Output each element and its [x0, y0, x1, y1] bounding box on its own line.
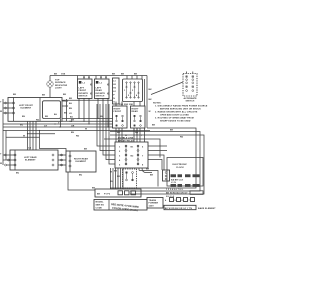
svg-text:BU: BU [69, 108, 73, 110]
svg-text:ELEMENT: ELEMENT [76, 161, 87, 163]
svg-text:BK W RD BU OR GY Y TN: BK W RD BU OR GY Y TN [165, 208, 193, 210]
bus labels [22, 116, 104, 137]
svg-text:FORMER: FORMER [149, 203, 159, 205]
clock side connector [163, 170, 170, 181]
svg-text:BAKE ELEMENT: BAKE ELEMENT [198, 207, 216, 210]
terminals between rear elements [58, 154, 66, 166]
leader line to alternate switch [151, 82, 183, 95]
svg-text:2. RANGE SHOWN WITH ALL CIRCU: 2. RANGE SHOWN WITH ALL CIRCUITS [155, 111, 198, 114]
double line break relay K1 [115, 138, 148, 168]
svg-text:REAR: REAR [132, 110, 139, 113]
svg-text:CLOCK: CLOCK [176, 167, 184, 169]
bus wire y133 [28, 133, 56, 135]
svg-text:ALTERNATE: ALTERNATE [184, 97, 198, 100]
svg-text:RD: RD [180, 137, 184, 139]
svg-text:1. DISCONNECT RANGE FROM POWE: 1. DISCONNECT RANGE FROM POWER SOURCE [155, 105, 208, 108]
svg-text:NOTES:: NOTES: [153, 103, 162, 105]
right rear element E3 [66, 149, 96, 177]
connector strip P1 [113, 78, 120, 104]
wire top bus L1 [50, 75, 147, 77]
drops from relay to bottom [111, 168, 124, 189]
svg-text:W: W [23, 136, 25, 138]
svg-text:CA: CA [28, 147, 32, 150]
bus wire y137 left [6, 136, 40, 138]
junction dots [27, 118, 138, 136]
svg-text:OR: OR [71, 125, 75, 127]
svg-text:OPEN AND DOOR CLOSED: OPEN AND DOOR CLOSED [160, 114, 189, 117]
wire to right rear element [40, 131, 67, 152]
svg-text:SWITCH: SWITCH [186, 101, 195, 103]
svg-text:BK: BK [63, 94, 67, 96]
svg-text:BK: BK [112, 74, 116, 76]
bus wire L1 y121 [62, 120, 113, 122]
vertical bundle to relay [97, 104, 115, 164]
svg-text:BK: BK [146, 169, 150, 171]
transformer box [147, 198, 163, 209]
right surface switch bank S3 [119, 76, 143, 106]
svg-text:BK: BK [117, 132, 121, 134]
row2 labels [117, 132, 143, 137]
bus wire N y127 [3, 126, 113, 128]
door lock switch dashed [114, 168, 158, 188]
svg-text:TOP: TOP [55, 80, 60, 82]
svg-text:CODE: CODE [96, 208, 103, 210]
svg-text:BK: BK [71, 119, 75, 121]
oven selector switch lower [131, 106, 146, 128]
lower band left box [94, 200, 147, 211]
svg-text:SWITCH: SWITCH [79, 96, 88, 98]
relay drop labels [110, 172, 121, 184]
svg-text:INDICATOR: INDICATOR [55, 84, 68, 87]
svg-text:W: W [85, 129, 87, 131]
svg-text:BK: BK [121, 74, 125, 76]
bus wire y137 [104, 139, 160, 158]
top bus labels [54, 74, 138, 76]
svg-text:BK: BK [42, 95, 46, 97]
svg-text:SHARP EDGES TO BE USED: SHARP EDGES TO BE USED [160, 120, 191, 123]
bus wire y118 [62, 117, 113, 119]
svg-text:BK: BK [134, 74, 138, 76]
terminal labels below clock [166, 188, 203, 198]
svg-text:BU: BU [71, 132, 75, 134]
svg-text:LEFT: LEFT [79, 88, 85, 90]
svg-text:BK: BK [149, 89, 153, 91]
svg-text:BU: BU [16, 173, 20, 175]
bus wire y130 [3, 130, 150, 132]
right loop wire 1 [110, 128, 196, 188]
svg-text:W: W [149, 111, 151, 113]
svg-text:DOUBLE LINE: DOUBLE LINE [118, 138, 134, 140]
svg-text:W: W [0, 111, 2, 113]
right loop wire 3 [110, 128, 204, 194]
svg-text:BK: BK [69, 98, 73, 100]
svg-text:MODEL: MODEL [96, 202, 105, 204]
svg-text:BK: BK [170, 130, 174, 132]
svg-text:1SE: 1SE [61, 74, 66, 76]
svg-text:BU: BU [20, 125, 24, 127]
svg-text:RD: RD [76, 135, 80, 137]
svg-text:G: G [113, 102, 115, 104]
svg-text:LEFT: LEFT [96, 88, 102, 90]
indicator light DS1 [47, 76, 68, 98]
svg-text:8A: 8A [70, 116, 73, 119]
svg-text:BEFORE SERVICING UNIT OR SHOCK: BEFORE SERVICING UNIT OR SHOCK [160, 109, 201, 111]
notes text [153, 103, 208, 123]
svg-text:RD: RD [117, 176, 121, 178]
svg-text:BK: BK [97, 193, 101, 195]
svg-text:BK: BK [54, 74, 58, 76]
svg-text:TRANS: TRANS [149, 199, 157, 202]
terminal box row [165, 198, 195, 203]
right loop wire 2 [110, 128, 200, 191]
legend strip [164, 205, 216, 210]
right side terminals of left front element [62, 98, 73, 123]
svg-text:W: W [0, 163, 2, 165]
vertical right of bank [145, 76, 148, 129]
left rear element pigtail [3, 127, 14, 166]
svg-text:BK: BK [45, 116, 49, 118]
svg-text:FRONT: FRONT [114, 111, 122, 113]
left bus labels [13, 94, 67, 97]
svg-text:L1 N: L1 N [171, 182, 176, 184]
wire below switches [62, 99, 112, 101]
left rear element E2 [10, 147, 58, 175]
svg-text:P1 P2: P1 P2 [104, 193, 111, 195]
relay to clock wires [148, 146, 167, 170]
svg-text:BK: BK [150, 175, 154, 177]
svg-text:BK: BK [84, 149, 88, 151]
drops row2 to relay [116, 128, 145, 142]
svg-text:W: W [110, 172, 112, 174]
svg-text:INFINITE: INFINITE [79, 93, 89, 95]
svg-text:SWITCH: SWITCH [96, 96, 105, 98]
vertical drops left [28, 98, 109, 150]
lower junction box [95, 189, 141, 197]
loop labels [149, 89, 184, 139]
svg-text:BU: BU [64, 113, 68, 115]
wire from right rear element to lower section [68, 172, 96, 190]
svg-text:ELEMENT: ELEMENT [21, 108, 32, 110]
left front infinite switch S1 [78, 76, 93, 99]
oven selector switch upper [113, 102, 141, 129]
left rear infinite switch S2 [95, 76, 110, 99]
svg-text:BU: BU [22, 116, 26, 118]
svg-text:REAR: REAR [96, 89, 103, 92]
svg-text:FRONT: FRONT [79, 90, 87, 92]
svg-text:INFINITE: INFINITE [96, 93, 106, 95]
svg-text:ELECTRONIC: ELECTRONIC [173, 164, 188, 166]
svg-text:1SE 2SE 3SE: 1SE 2SE 3SE [119, 104, 134, 106]
slanted annotation text [111, 203, 139, 212]
svg-text:BA BR CLK: BA BR CLK [171, 179, 184, 182]
svg-text:ELEMENT: ELEMENT [25, 160, 36, 162]
svg-text:1 2 3 4 5 6 7 8 9: 1 2 3 4 5 6 7 8 9 [166, 188, 183, 191]
svg-text:BK W RD BU OR GY: BK W RD BU OR GY [166, 193, 188, 195]
alternate switch S4 [183, 72, 197, 103]
svg-text:SER NO: SER NO [96, 205, 105, 207]
svg-text:BU: BU [79, 175, 83, 177]
svg-text:LEFT REAR: LEFT REAR [24, 156, 37, 159]
svg-text:8A: 8A [69, 102, 72, 105]
element coil inner loop [43, 101, 61, 119]
wire label W [23, 136, 25, 138]
svg-text:RIGHT REAR: RIGHT REAR [74, 158, 88, 161]
svg-text:RD: RD [36, 119, 40, 121]
svg-text:BU: BU [110, 181, 114, 183]
svg-text:8A: 8A [54, 113, 57, 116]
svg-text:120V: 120V [149, 205, 155, 207]
svg-text:BK: BK [13, 94, 17, 96]
svg-text:LIGHT: LIGHT [55, 88, 62, 90]
svg-text:RIGHT: RIGHT [114, 109, 122, 111]
element exit labels [64, 113, 73, 119]
svg-text:SURFACE: SURFACE [55, 81, 66, 84]
svg-text:RIGHT: RIGHT [132, 109, 140, 111]
electronic clock A1 [167, 158, 203, 187]
bus wire L2 y124 [3, 123, 113, 125]
svg-text:LEFT FRONT: LEFT FRONT [19, 105, 34, 107]
svg-text:BK: BK [149, 99, 153, 101]
svg-text:3. ROUTING OF WIRES AWAY FROM: 3. ROUTING OF WIRES AWAY FROM [155, 117, 194, 120]
svg-text:GY: GY [44, 125, 48, 127]
left front element E1 [8, 98, 62, 122]
svg-text:BK: BK [152, 125, 156, 127]
left front element pigtail wires [0, 99, 24, 165]
